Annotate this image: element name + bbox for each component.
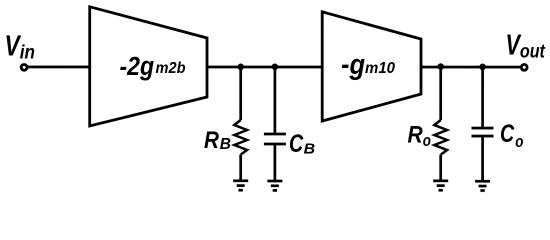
wire RB to ground — [239, 155, 242, 181]
wire amp1 output to amp2 input — [207, 66, 322, 69]
node junction Co — [479, 64, 486, 71]
wire Co branch — [481, 67, 484, 127]
node Vout terminal — [521, 64, 527, 70]
node junction Ro — [437, 63, 444, 70]
wire Ro to ground — [439, 155, 442, 181]
capacitor Co — [471, 128, 493, 136]
ground CB — [267, 181, 282, 190]
capacitor CB — [264, 134, 286, 144]
op-amp U1 transconductance stage — [90, 7, 207, 126]
wire CB to ground — [274, 145, 277, 181]
node junction CB — [272, 63, 279, 70]
wire amp2 output to Vout — [421, 66, 521, 69]
wire Co to ground — [481, 137, 484, 181]
resistor Ro — [434, 120, 447, 155]
wire CB branch — [274, 67, 277, 133]
ground RB — [233, 181, 248, 190]
ground Ro — [433, 181, 448, 190]
node Vin terminal — [21, 64, 27, 70]
resistor RB — [234, 120, 247, 155]
op-amp U2 transconductance stage — [322, 12, 421, 121]
wire RB branch — [239, 67, 242, 120]
wire input Vin to amp1 — [26, 66, 90, 69]
wire Ro branch — [439, 67, 442, 120]
node junction RB — [237, 63, 244, 70]
ground Co — [475, 181, 490, 190]
